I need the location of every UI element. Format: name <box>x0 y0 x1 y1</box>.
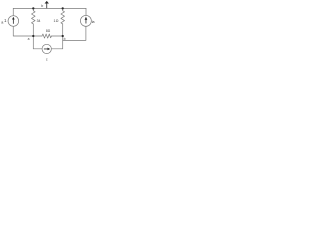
arrow of bottom current source <box>44 48 48 50</box>
svg-text:8Ω: 8Ω <box>46 29 51 33</box>
svg-text:34: 34 <box>37 19 41 23</box>
junction dot top-left node <box>32 7 34 9</box>
current source left circle <box>8 16 19 27</box>
resistor R2 zigzag <box>61 11 65 24</box>
svg-text:1Ω: 1Ω <box>54 19 59 23</box>
current source right circle <box>80 15 91 26</box>
wire bottom right segment <box>51 48 62 50</box>
wire left branch top <box>12 8 14 15</box>
wire bottom left segment <box>33 48 42 50</box>
svg-text:1: 1 <box>4 18 7 23</box>
svg-text:b: b <box>41 4 43 8</box>
current arrow on top rail <box>46 3 48 8</box>
wire R3 right lead <box>52 35 63 37</box>
wire right riser bottom <box>62 36 64 49</box>
wire R3 left lead <box>33 35 42 37</box>
svg-text:a: a <box>28 37 30 41</box>
junction dot top-right node <box>62 7 64 9</box>
wire R1 bottom lead <box>32 24 34 36</box>
arrow of right current source <box>85 20 87 24</box>
arrow of left current source <box>12 19 14 23</box>
svg-text:b: b <box>64 37 66 41</box>
current source bottom circle <box>42 44 51 53</box>
wire left branch bottom <box>13 26 33 36</box>
wire right branch top <box>85 8 87 15</box>
wire right branch bottom <box>63 26 86 40</box>
wire R2 top lead <box>62 8 64 10</box>
resistor R1 zigzag <box>32 11 36 24</box>
svg-text:c: c <box>46 58 48 62</box>
svg-text:ia: ia <box>92 20 95 24</box>
wire top rail <box>13 7 86 9</box>
wire R1 top lead <box>32 8 34 10</box>
junction dot node a <box>32 35 34 37</box>
resistor R3 zigzag <box>42 34 52 38</box>
wire R2 bottom lead <box>62 24 64 36</box>
junction dot node b <box>62 35 64 37</box>
wire node a down segment <box>32 36 34 49</box>
